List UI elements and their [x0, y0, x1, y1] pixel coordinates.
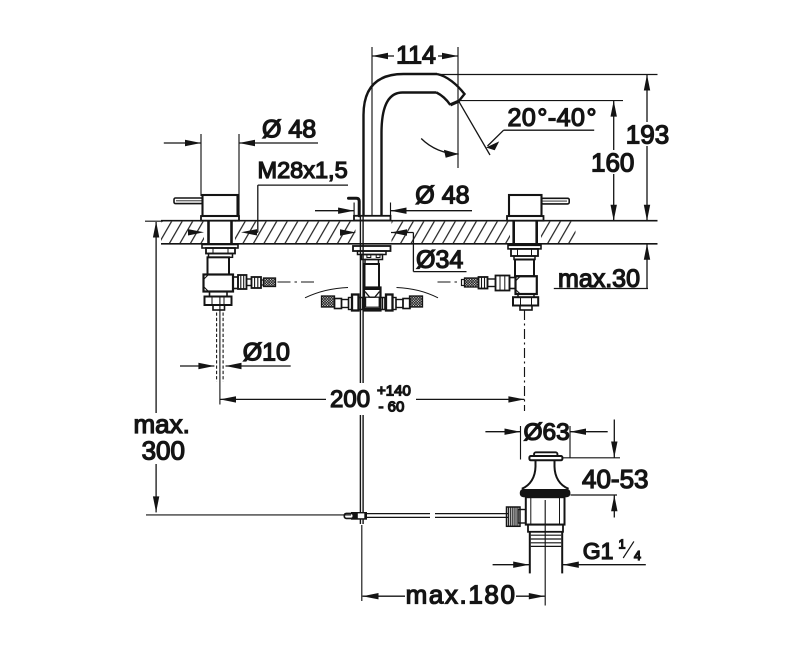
- svg-text:Ø 48: Ø 48: [415, 182, 469, 210]
- svg-text:Ø 48: Ø 48: [262, 116, 316, 144]
- svg-text:1: 1: [619, 538, 626, 552]
- svg-text:114: 114: [396, 42, 436, 70]
- svg-text:- 60: - 60: [379, 399, 405, 416]
- svg-text:20°-40°: 20°-40°: [508, 104, 597, 132]
- svg-text:160: 160: [591, 148, 634, 178]
- svg-text:G1: G1: [583, 538, 614, 564]
- svg-text:Ø63: Ø63: [524, 419, 570, 446]
- svg-text:+140: +140: [377, 383, 411, 400]
- svg-text:max.30: max.30: [558, 265, 640, 293]
- svg-text:200: 200: [330, 386, 370, 413]
- svg-text:max.180: max.180: [406, 580, 517, 610]
- svg-text:M28x1,5: M28x1,5: [258, 157, 348, 183]
- svg-text:40-53: 40-53: [582, 464, 649, 494]
- svg-text:Ø34: Ø34: [416, 246, 463, 274]
- svg-text:300: 300: [142, 435, 185, 465]
- svg-text:4: 4: [634, 549, 641, 563]
- svg-text:193: 193: [626, 120, 669, 150]
- svg-text:Ø10: Ø10: [243, 339, 290, 367]
